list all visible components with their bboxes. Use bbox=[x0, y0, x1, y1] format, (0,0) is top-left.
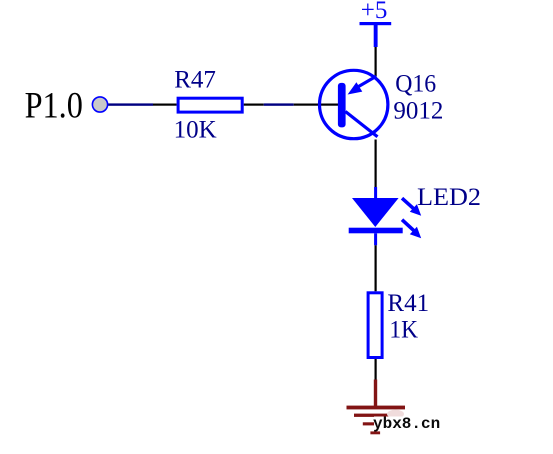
svg-text:10K: 10K bbox=[174, 117, 217, 144]
svg-text:R47: R47 bbox=[174, 67, 216, 94]
svg-text:P1.0: P1.0 bbox=[25, 86, 83, 127]
svg-text:ybx8.cn: ybx8.cn bbox=[373, 415, 440, 433]
svg-text:Q16: Q16 bbox=[395, 70, 436, 97]
svg-text:+5: +5 bbox=[361, 0, 388, 24]
svg-text:R41: R41 bbox=[387, 290, 429, 317]
svg-text:9012: 9012 bbox=[393, 97, 443, 124]
svg-text:LED2: LED2 bbox=[417, 184, 481, 211]
svg-text:1K: 1K bbox=[389, 316, 418, 343]
